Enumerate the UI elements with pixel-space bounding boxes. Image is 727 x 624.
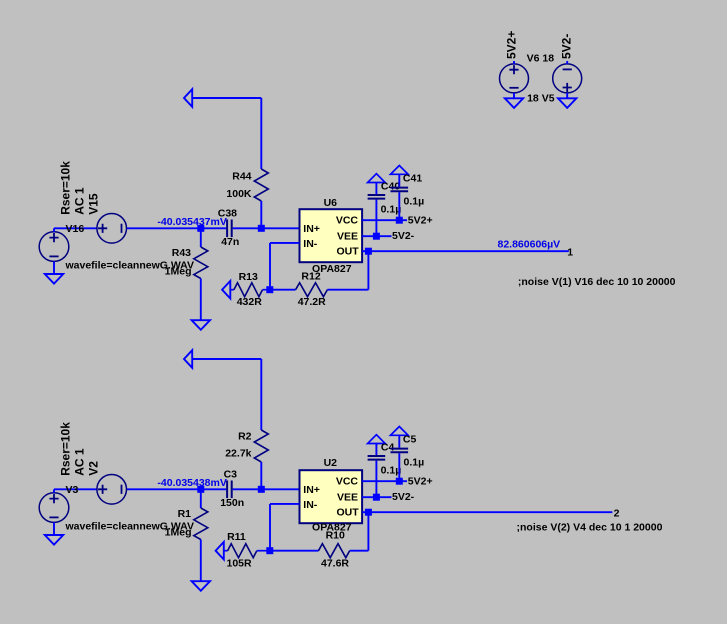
wire output net — [368, 511, 612, 513]
svg-text:V6 18: V6 18 — [527, 53, 555, 65]
svg-text:AC 1: AC 1 — [72, 448, 86, 476]
node junction OUT — [365, 509, 372, 516]
svg-text:;noise V(1) V16 dec 10 10 2000: ;noise V(1) V16 dec 10 10 20000 — [518, 276, 676, 288]
wire — [233, 227, 300, 229]
op-amp U6 — [300, 209, 363, 262]
svg-text:C5: C5 — [403, 434, 417, 446]
svg-text:V3: V3 — [66, 484, 79, 496]
svg-text:R10: R10 — [326, 530, 345, 542]
svg-text:0.1µ: 0.1µ — [381, 465, 402, 477]
node junction VEE — [373, 494, 380, 501]
wire — [269, 504, 271, 551]
svg-text:R2: R2 — [238, 430, 252, 442]
svg-text:VCC: VCC — [336, 215, 359, 227]
wire — [54, 488, 97, 490]
svg-text:;noise V(2) V4 dec 10 1 20000: ;noise V(2) V4 dec 10 1 20000 — [517, 522, 663, 534]
svg-text:R1: R1 — [178, 508, 192, 520]
svg-text:V2: V2 — [86, 461, 100, 476]
resistor R44 — [254, 169, 268, 201]
wire — [233, 488, 300, 490]
svg-text:432R: 432R — [237, 296, 263, 308]
svg-text:1Meg: 1Meg — [165, 527, 192, 539]
svg-text:0.1µ: 0.1µ — [381, 204, 402, 216]
wire VEE — [362, 496, 391, 498]
ground flag (rotated left) at R11 — [216, 542, 224, 560]
voltage source V3 — [39, 493, 69, 523]
svg-text:-40.035437mV: -40.035437mV — [157, 216, 226, 228]
svg-text:1: 1 — [567, 247, 573, 259]
node junction VEE — [373, 233, 380, 240]
svg-text:IN+: IN+ — [303, 223, 320, 235]
wire — [127, 227, 227, 229]
node junction at R44 bottom — [258, 225, 265, 232]
wire — [269, 243, 271, 290]
op-amp U2 — [300, 470, 363, 523]
voltage source V6 — [500, 64, 529, 93]
svg-text:0.1µ: 0.1µ — [404, 456, 425, 468]
node junction feedback — [266, 547, 273, 554]
svg-text:100K: 100K — [226, 188, 252, 200]
capacitor C3 — [226, 481, 228, 499]
wire OUT — [362, 511, 368, 513]
svg-text:5V2+: 5V2+ — [408, 476, 433, 488]
node junction input — [197, 225, 204, 232]
resistor R13 — [230, 289, 234, 291]
wire VCC — [362, 480, 407, 482]
wire — [192, 97, 261, 99]
svg-text:IN-: IN- — [303, 499, 318, 511]
svg-text:22.7k: 22.7k — [225, 447, 251, 459]
svg-text:VEE: VEE — [337, 231, 358, 243]
svg-text:OUT: OUT — [337, 246, 360, 258]
capacitor C5 — [391, 427, 409, 436]
svg-text:R13: R13 — [239, 271, 258, 283]
svg-text:VEE: VEE — [337, 492, 358, 504]
svg-text:1Meg: 1Meg — [165, 266, 192, 278]
ground — [45, 535, 63, 545]
svg-text:5V2+: 5V2+ — [408, 215, 433, 227]
svg-text:5V2-: 5V2- — [392, 230, 415, 242]
voltage source V5 — [553, 64, 582, 93]
wire VEE — [362, 235, 391, 237]
node junction feedback — [266, 286, 273, 293]
ground — [192, 320, 210, 330]
svg-text:47.2R: 47.2R — [298, 296, 326, 308]
ground — [558, 98, 576, 108]
ground flag (rotated left) at top of bias network 2 — [184, 350, 192, 368]
svg-text:U6: U6 — [324, 197, 338, 209]
svg-text:IN-: IN- — [303, 238, 318, 250]
wire — [260, 359, 262, 430]
wire — [260, 462, 262, 489]
resistor R10 — [270, 550, 319, 552]
resistor R11 — [224, 550, 228, 552]
svg-text:R12: R12 — [301, 270, 320, 282]
resistor R43 — [200, 228, 202, 247]
wire feedback to OUT — [367, 251, 369, 290]
svg-text:AC 1: AC 1 — [72, 187, 86, 215]
wire — [260, 201, 262, 228]
resistor R12 — [270, 289, 296, 291]
node junction OUT — [365, 248, 372, 255]
svg-text:U2: U2 — [324, 457, 338, 469]
wire feedback to OUT — [367, 512, 369, 551]
node junction input — [197, 486, 204, 493]
wire — [260, 98, 262, 169]
wire VCC — [362, 219, 407, 221]
svg-text:OUT: OUT — [337, 507, 360, 519]
node junction at R2 bottom — [258, 486, 265, 493]
wire IN- stub — [270, 242, 300, 244]
node junction VCC — [396, 217, 403, 224]
ground — [45, 274, 63, 284]
wire — [127, 488, 227, 490]
svg-text:Rser=10k: Rser=10k — [58, 422, 72, 476]
svg-text:V15: V15 — [86, 193, 100, 215]
svg-text:R11: R11 — [227, 531, 246, 543]
svg-text:R44: R44 — [232, 170, 251, 182]
svg-text:VCC: VCC — [336, 476, 359, 488]
ground flag (rotated left) at top of bias network — [184, 89, 192, 107]
capacitor C38 — [226, 220, 228, 238]
wire — [192, 358, 261, 360]
svg-text:18 V5: 18 V5 — [527, 93, 555, 105]
wire output net — [368, 250, 568, 252]
voltage source V2 — [97, 475, 127, 505]
svg-text:150n: 150n — [220, 497, 244, 509]
svg-text:Rser=10k: Rser=10k — [58, 161, 72, 215]
svg-text:5V2-: 5V2- — [392, 491, 415, 503]
svg-text:C41: C41 — [403, 173, 422, 185]
wire IN- stub — [270, 503, 300, 505]
wire OUT — [362, 250, 368, 252]
svg-text:-40.035438mV: -40.035438mV — [157, 477, 226, 489]
node junction VCC — [396, 478, 403, 485]
svg-text:V16: V16 — [66, 223, 85, 235]
svg-text:82.860606µV: 82.860606µV — [498, 238, 561, 250]
ground flag (rotated left) at R13 — [222, 281, 230, 299]
svg-text:47n: 47n — [221, 236, 239, 248]
svg-text:5V2+: 5V2+ — [504, 31, 518, 59]
capacitor C41 — [391, 166, 409, 175]
voltage source V15 — [97, 214, 127, 244]
svg-text:5V2-: 5V2- — [559, 34, 573, 59]
ground — [505, 98, 523, 108]
svg-text:2: 2 — [614, 508, 620, 520]
wire — [54, 227, 97, 229]
voltage source V16 — [39, 232, 69, 262]
capacitor C4 — [368, 435, 386, 444]
resistor R2 — [254, 430, 268, 462]
svg-text:105R: 105R — [227, 557, 253, 569]
svg-text:0.1µ: 0.1µ — [404, 195, 425, 207]
svg-text:R43: R43 — [172, 247, 191, 259]
capacitor C40 — [368, 174, 386, 183]
svg-text:IN+: IN+ — [303, 484, 320, 496]
ground — [192, 581, 210, 591]
resistor R1 — [200, 489, 202, 508]
svg-text:47.6R: 47.6R — [321, 558, 349, 570]
